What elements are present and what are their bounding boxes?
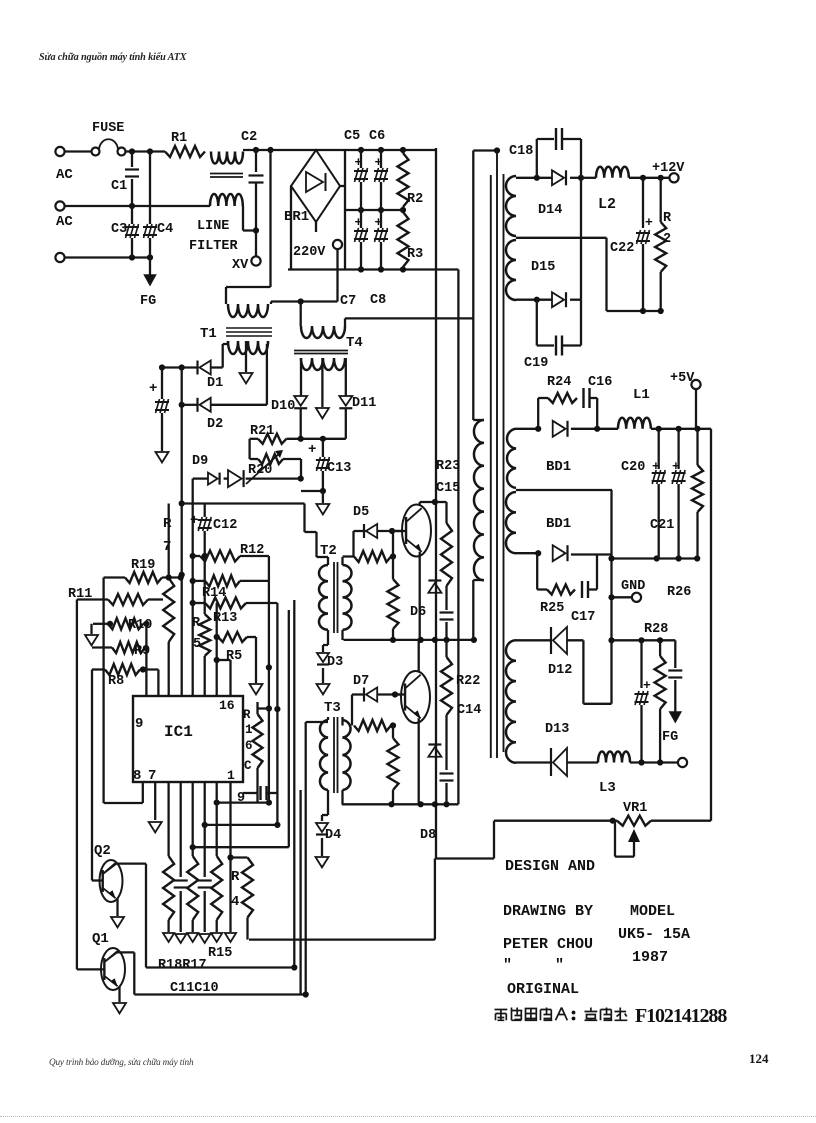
svg-text:C6: C6 xyxy=(369,129,385,144)
svg-text:FG: FG xyxy=(140,294,156,309)
svg-text:D13: D13 xyxy=(545,722,569,737)
svg-text:R5: R5 xyxy=(226,649,242,664)
svg-text:7: 7 xyxy=(163,539,171,555)
svg-text:R28: R28 xyxy=(644,622,668,637)
svg-text:BD1: BD1 xyxy=(546,459,571,475)
svg-text:R: R xyxy=(192,616,201,631)
svg-text:DESIGN AND: DESIGN AND xyxy=(505,858,595,875)
svg-text:R22: R22 xyxy=(456,674,480,689)
svg-text:C: C xyxy=(244,759,252,773)
svg-text:R15: R15 xyxy=(208,946,232,961)
svg-text:FG: FG xyxy=(662,730,678,745)
svg-text:D7: D7 xyxy=(353,674,369,689)
svg-text:R21: R21 xyxy=(250,424,274,439)
svg-text:D2: D2 xyxy=(207,417,223,432)
svg-text:C21: C21 xyxy=(650,518,674,533)
svg-text:C18: C18 xyxy=(509,144,533,159)
svg-text:D15: D15 xyxy=(531,260,555,275)
svg-text:AC: AC xyxy=(56,214,73,230)
svg-text:BD1: BD1 xyxy=(546,516,571,532)
svg-text:C4: C4 xyxy=(157,222,173,237)
svg-text:9: 9 xyxy=(135,716,143,732)
svg-text:R: R xyxy=(163,516,172,532)
svg-text:C2: C2 xyxy=(241,130,257,145)
svg-text:FILTER: FILTER xyxy=(189,239,239,254)
svg-text:C15: C15 xyxy=(436,481,460,496)
svg-text:+5V: +5V xyxy=(670,371,695,386)
svg-text:7: 7 xyxy=(148,768,156,784)
svg-text:D11: D11 xyxy=(352,396,376,411)
svg-text:220V: 220V xyxy=(293,245,326,260)
svg-text:T4: T4 xyxy=(346,335,363,351)
svg-text:C12: C12 xyxy=(213,518,237,533)
svg-text:C13: C13 xyxy=(327,461,351,476)
svg-text:C16: C16 xyxy=(588,375,612,390)
svg-text:ORIGINAL: ORIGINAL xyxy=(507,981,579,998)
svg-text:C19: C19 xyxy=(524,356,548,371)
svg-text:PETER CHOU: PETER CHOU xyxy=(503,936,593,953)
svg-text:VR1: VR1 xyxy=(623,801,647,816)
svg-text:4: 4 xyxy=(231,894,239,910)
svg-text:D8: D8 xyxy=(420,828,436,843)
svg-text:L1: L1 xyxy=(633,387,650,403)
svg-text:D1: D1 xyxy=(207,376,223,391)
svg-text:C5: C5 xyxy=(344,129,360,144)
svg-text:5: 5 xyxy=(193,637,201,652)
svg-text:D6: D6 xyxy=(410,605,426,620)
svg-text:R: R xyxy=(663,211,672,226)
svg-text:R26: R26 xyxy=(667,585,691,600)
svg-text:BR1: BR1 xyxy=(284,209,309,225)
svg-text:AC: AC xyxy=(56,167,73,183)
svg-text:T1: T1 xyxy=(200,326,217,342)
svg-text:R25: R25 xyxy=(540,601,564,616)
svg-text:T3: T3 xyxy=(324,700,341,716)
svg-text:+: + xyxy=(643,678,651,693)
svg-text:C7: C7 xyxy=(340,294,356,309)
svg-text:8: 8 xyxy=(133,768,141,784)
svg-text:D14: D14 xyxy=(538,203,562,218)
svg-text:L3: L3 xyxy=(599,780,616,796)
svg-text:2: 2 xyxy=(663,232,671,247)
svg-text:R1: R1 xyxy=(171,131,187,146)
svg-text:D12: D12 xyxy=(548,663,572,678)
svg-text:D3: D3 xyxy=(327,655,343,670)
svg-text:R9: R9 xyxy=(134,644,150,659)
svg-text:1987: 1987 xyxy=(632,949,668,966)
svg-text:UK5- 15A: UK5- 15A xyxy=(618,926,690,943)
svg-text:R2: R2 xyxy=(407,192,423,207)
svg-text:MODEL: MODEL xyxy=(630,903,675,920)
svg-text:C8: C8 xyxy=(370,293,386,308)
svg-text:C1: C1 xyxy=(111,179,127,194)
svg-text:D5: D5 xyxy=(353,505,369,520)
svg-text:D4: D4 xyxy=(325,828,341,843)
svg-text:16: 16 xyxy=(219,698,235,713)
svg-text:Q2: Q2 xyxy=(94,843,111,859)
svg-text:F102141288: F102141288 xyxy=(635,1005,727,1027)
svg-text:R3: R3 xyxy=(407,247,423,262)
svg-text:1: 1 xyxy=(245,723,253,737)
svg-text:D10: D10 xyxy=(271,399,295,414)
svg-text:D9: D9 xyxy=(192,454,208,469)
svg-text:R23: R23 xyxy=(436,459,460,474)
svg-text:Q1: Q1 xyxy=(92,931,109,947)
svg-text:R18R17: R18R17 xyxy=(158,958,207,973)
svg-text:+: + xyxy=(308,442,316,458)
svg-text:C14: C14 xyxy=(457,703,481,718)
svg-text:R: R xyxy=(243,708,251,722)
svg-text:1: 1 xyxy=(227,768,235,783)
svg-text:C17: C17 xyxy=(571,610,595,625)
svg-text:XV: XV xyxy=(232,258,249,273)
svg-text:R24: R24 xyxy=(547,375,571,390)
svg-text:LINE: LINE xyxy=(197,219,229,234)
svg-text:R10: R10 xyxy=(128,618,152,633)
svg-text:": " xyxy=(503,957,512,974)
svg-text:IC1: IC1 xyxy=(164,723,193,741)
svg-text:C22: C22 xyxy=(610,241,634,256)
svg-text:GND: GND xyxy=(621,579,645,594)
svg-text:L2: L2 xyxy=(598,196,616,213)
svg-text:DRAWING BY: DRAWING BY xyxy=(503,903,593,920)
svg-text:": " xyxy=(555,957,564,974)
svg-text:R: R xyxy=(231,869,240,885)
svg-text:R8: R8 xyxy=(108,674,124,689)
svg-text:+12V: +12V xyxy=(652,161,685,176)
svg-text:+: + xyxy=(149,381,157,397)
svg-text:C20: C20 xyxy=(621,460,645,475)
svg-text:FUSE: FUSE xyxy=(92,121,124,136)
svg-text:+: + xyxy=(645,215,653,230)
svg-text:+: + xyxy=(190,513,198,529)
svg-text:C3: C3 xyxy=(111,222,127,237)
